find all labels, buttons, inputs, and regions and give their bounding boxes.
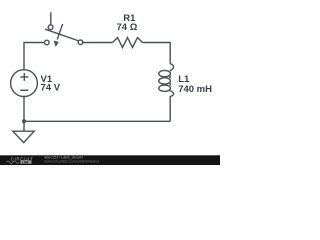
CircuitLab logo: LAB box — [20, 160, 31, 163]
svg-text:74 V: 74 V — [41, 83, 61, 94]
resistor R1 zigzag — [113, 38, 143, 48]
switch SW1 left contact circle — [45, 40, 50, 45]
inductor L1 bottom hook — [169, 91, 173, 97]
svg-text:www.circuitlab.com/c/68bb4rp8x: www.circuitlab.com/c/68bb4rp8xq — [44, 160, 99, 164]
inductor L1 loop 2 — [159, 78, 171, 84]
wire: switch top terminal stub — [50, 12, 52, 24]
junction dot — [22, 119, 26, 123]
inductor L1 coil top hook — [170, 64, 174, 71]
svg-text:74 Ω: 74 Ω — [116, 22, 137, 33]
wire: V1 top to top-left corner to switch left contact — [24, 43, 44, 70]
inductor L1 loop 1 — [159, 70, 171, 76]
switch SW1 actuation arrow — [57, 24, 63, 40]
inductor L1 loop connectors — [169, 75, 172, 85]
footer bar — [0, 155, 220, 165]
svg-text:LAB: LAB — [22, 160, 30, 164]
voltage source V1 circle — [11, 70, 38, 97]
switch SW1 right contact circle — [78, 40, 83, 45]
wire: bottom rail — [24, 120, 170, 122]
wire: inductor to bottom-right corner — [169, 96, 171, 121]
switch SW1 top contact circle — [48, 25, 53, 30]
ground symbol — [13, 131, 34, 142]
CircuitLab logo: waveform — [7, 161, 19, 163]
wire: switch to resistor — [83, 42, 113, 44]
inductor L1 loop 3 — [159, 85, 171, 91]
wire: resistor to top-right corner down to inductor — [143, 43, 171, 65]
svg-text:740 mH: 740 mH — [178, 84, 212, 95]
switch SW1 lever — [45, 29, 78, 41]
wire: V1 bottom to ground — [23, 96, 25, 131]
V1 minus sign — [20, 89, 28, 91]
V1 plus sign — [20, 73, 28, 81]
